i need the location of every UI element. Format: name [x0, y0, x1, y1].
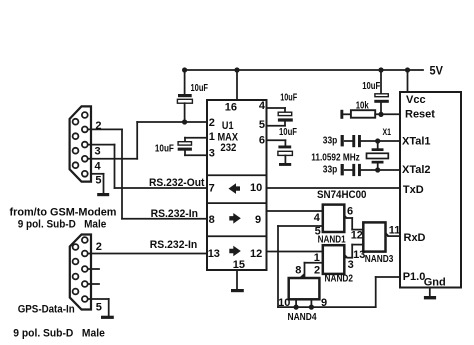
node junction XTal2	[375, 167, 380, 172]
transistor U3D NAND4 box	[289, 278, 320, 299]
svg-text:5V: 5V	[430, 64, 443, 78]
svg-text:10uF: 10uF	[362, 81, 380, 92]
ground conn1 pin5	[97, 193, 109, 196]
svg-text:11.0592 MHz: 11.0592 MHz	[311, 152, 360, 163]
svg-text:TxD: TxD	[403, 184, 424, 196]
svg-text:4: 4	[259, 100, 266, 112]
wire conn2 pin5 to ground	[88, 299, 109, 316]
arrow U1 T2 left	[229, 183, 241, 194]
wire NAND1 pin5 feedback	[278, 226, 400, 307]
svg-text:XTal2: XTal2	[402, 164, 431, 176]
svg-text:10k: 10k	[356, 100, 369, 111]
wire conn2 pin4 stub	[88, 283, 99, 285]
svg-text:2: 2	[209, 117, 215, 129]
svg-text:10uF: 10uF	[279, 127, 297, 138]
svg-text:X1: X1	[383, 127, 392, 137]
svg-text:NAND4: NAND4	[288, 312, 317, 323]
svg-text:13: 13	[208, 248, 220, 260]
svg-text:3: 3	[95, 146, 101, 158]
capacitor C5 10uF (Vcc bypass)	[374, 70, 389, 114]
wire conn2 pin3 stub	[88, 268, 99, 270]
svg-text:XTal1: XTal1	[402, 136, 431, 148]
transistor U3A NAND1 box	[323, 205, 345, 232]
svg-text:10uF: 10uF	[280, 92, 297, 103]
wire RS232-Out row: conn1 pin3 to U1 pin7	[88, 145, 207, 188]
wire U1 divider 1	[207, 174, 267, 176]
node junction NAND4 pin10	[294, 305, 299, 310]
svg-text:9 pol. Sub-D Male: 9 pol. Sub-D Male	[18, 219, 107, 231]
svg-text:NAND3: NAND3	[365, 254, 394, 265]
wire Vcc drop to U2	[407, 70, 409, 92]
svg-text:33p: 33p	[323, 136, 338, 147]
arrow U1 R1 right	[229, 246, 241, 257]
wire NAND3 output 11 to RxD	[386, 232, 401, 237]
wire U1 pin2 (V+)	[137, 121, 207, 123]
svg-text:33p: 33p	[323, 165, 338, 176]
wire 5V rail	[185, 69, 423, 71]
wire RS232-In row2: conn2 pin2 to U1 pin13	[88, 253, 207, 255]
wire NAND4 output 8 to NAND2 pin2	[299, 263, 323, 278]
crystal X1 11.0592 MHz	[367, 141, 389, 170]
resistor R1 10k	[340, 110, 400, 119]
svg-text:Reset: Reset	[405, 109, 435, 121]
svg-text:7: 7	[209, 183, 215, 195]
svg-text:5: 5	[259, 119, 265, 131]
capacitor C6 33p (XTal1)	[341, 135, 400, 147]
svg-text:9 pol. Sub-D Male: 9 pol. Sub-D Male	[13, 328, 105, 340]
wire NAND1 output 6 to NAND3 pin12	[344, 214, 363, 229]
wire conn1 pin5 to ground	[91, 174, 104, 194]
svg-text:1: 1	[209, 131, 215, 143]
svg-text:1: 1	[314, 252, 320, 264]
connector J1 9pol Sub-D male (GSM)	[70, 106, 91, 181]
node junction C1 / pin2	[182, 119, 187, 124]
svg-text:8: 8	[209, 214, 215, 226]
svg-text:4: 4	[95, 161, 102, 173]
svg-text:P1.0: P1.0	[403, 271, 426, 283]
capacitor C2 10uF (pins 1-3)	[178, 138, 207, 156]
connector J2 9pol Sub-D male (GPS)	[70, 235, 91, 310]
svg-text:GPS-Data-In: GPS-Data-In	[18, 303, 75, 315]
wire NAND4 pin10 stem	[295, 299, 297, 307]
ground conn2 pin5	[101, 316, 114, 319]
op-amp U1 MAX232 box	[207, 100, 267, 270]
capacitor C7 33p (XTal2)	[341, 164, 400, 176]
svg-text:RS.232-In: RS.232-In	[151, 208, 199, 220]
svg-text:Vcc: Vcc	[406, 94, 426, 106]
svg-text:11: 11	[389, 224, 401, 236]
svg-text:5: 5	[95, 174, 101, 186]
transistor U3C NAND3 box	[363, 222, 385, 251]
svg-text:RS.232-Out: RS.232-Out	[149, 177, 205, 189]
transistor U3B NAND2 box	[323, 245, 345, 274]
node junction C5 / Reset	[378, 112, 383, 117]
node junction XTal1	[375, 138, 380, 143]
wire conn1 pin4 to U1 pin2 V+	[88, 122, 137, 159]
svg-text:NAND1: NAND1	[318, 235, 346, 246]
svg-text:Gnd: Gnd	[424, 276, 446, 288]
svg-text:NAND2: NAND2	[325, 274, 354, 285]
wire U1 divider 2	[207, 202, 267, 204]
op-amp U2 microcontroller box	[400, 92, 461, 288]
svg-text:4: 4	[314, 212, 321, 224]
svg-text:6: 6	[259, 135, 265, 147]
svg-text:RS.232-In: RS.232-In	[150, 239, 198, 251]
capacitor C4 10uF (pin 6 V-)	[267, 140, 293, 166]
svg-text:3: 3	[209, 148, 215, 160]
svg-text:9: 9	[255, 214, 261, 226]
svg-text:9: 9	[321, 297, 327, 309]
svg-text:12: 12	[250, 248, 262, 260]
svg-text:6: 6	[347, 205, 353, 217]
svg-text:2: 2	[96, 241, 102, 253]
svg-text:2: 2	[95, 120, 101, 132]
arrow U1 R2 right	[229, 213, 241, 224]
svg-text:from/to GSM-Modem: from/to GSM-Modem	[10, 206, 117, 218]
node junction rail C5	[378, 67, 383, 72]
svg-text:8: 8	[295, 265, 301, 277]
node junction NAND4 pin9	[309, 305, 314, 310]
wire U1 pin9 to NAND1 pin4	[267, 210, 323, 212]
svg-text:U1: U1	[222, 120, 234, 132]
svg-text:10uF: 10uF	[191, 83, 209, 94]
node junction rail pin16	[234, 67, 239, 72]
wire U1 divider 3	[207, 235, 267, 237]
node junction rail C1	[182, 67, 187, 72]
svg-text:10uF: 10uF	[155, 143, 174, 154]
svg-text:232: 232	[220, 142, 236, 154]
wire NAND2 output 3 to NAND3 pin13	[344, 245, 363, 259]
svg-text:5: 5	[96, 302, 102, 314]
capacitor C3 10uF (pins 4-5)	[267, 108, 293, 126]
wire U1 pin10 to TxD	[267, 187, 401, 189]
ground U1 pin15	[231, 270, 244, 292]
svg-text:10: 10	[250, 182, 262, 194]
svg-text:SN74HC00: SN74HC00	[317, 189, 367, 201]
svg-text:10: 10	[278, 297, 290, 309]
svg-text:2: 2	[314, 264, 320, 276]
capacitor C1 10uF (V+ to VCC)	[177, 70, 192, 122]
node junction rail Vcc	[405, 67, 410, 72]
wire U1 pin12 to NAND2 pin1	[267, 251, 323, 253]
svg-text:RxD: RxD	[404, 232, 426, 244]
wire pin16 drop to U1	[236, 70, 238, 100]
svg-text:16: 16	[225, 101, 237, 113]
ground U2 Gnd	[424, 288, 436, 300]
wire RS232-In row: conn1 pin2 to U1 pin8	[88, 129, 207, 218]
svg-text:12: 12	[351, 230, 363, 242]
wire NAND4 pin9 stem	[310, 299, 312, 307]
svg-text:15: 15	[233, 259, 245, 271]
svg-text:13: 13	[353, 249, 365, 261]
